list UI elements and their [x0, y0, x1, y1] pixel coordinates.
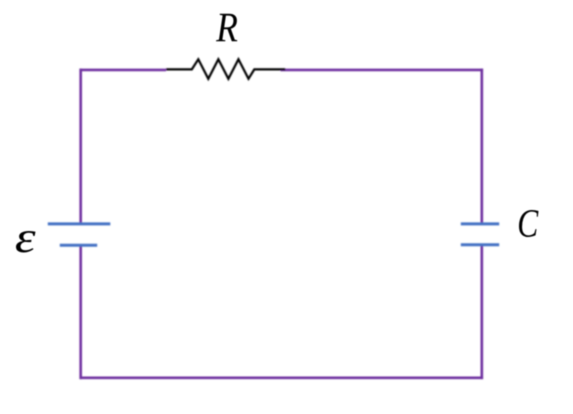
- label C: [519, 210, 538, 237]
- label R: [216, 14, 237, 41]
- wire: left vertical lower segment: [79, 245, 82, 379]
- label epsilon (EMF): [16, 231, 35, 252]
- battery (EMF source): long plate: [48, 222, 111, 225]
- wire: top-left horizontal segment: [79, 69, 166, 72]
- capacitor C1: bottom plate: [461, 243, 499, 246]
- wire: right vertical upper segment: [480, 69, 483, 224]
- wire: left vertical upper segment: [79, 69, 82, 224]
- resistor R (zigzag with black leads): [166, 59, 285, 79]
- wire: bottom horizontal segment: [79, 376, 483, 379]
- wire: top-right horizontal segment: [281, 69, 484, 72]
- wire: right vertical lower segment: [480, 245, 483, 379]
- capacitor C1: top plate: [461, 222, 499, 225]
- battery (EMF source): short plate: [60, 244, 97, 247]
